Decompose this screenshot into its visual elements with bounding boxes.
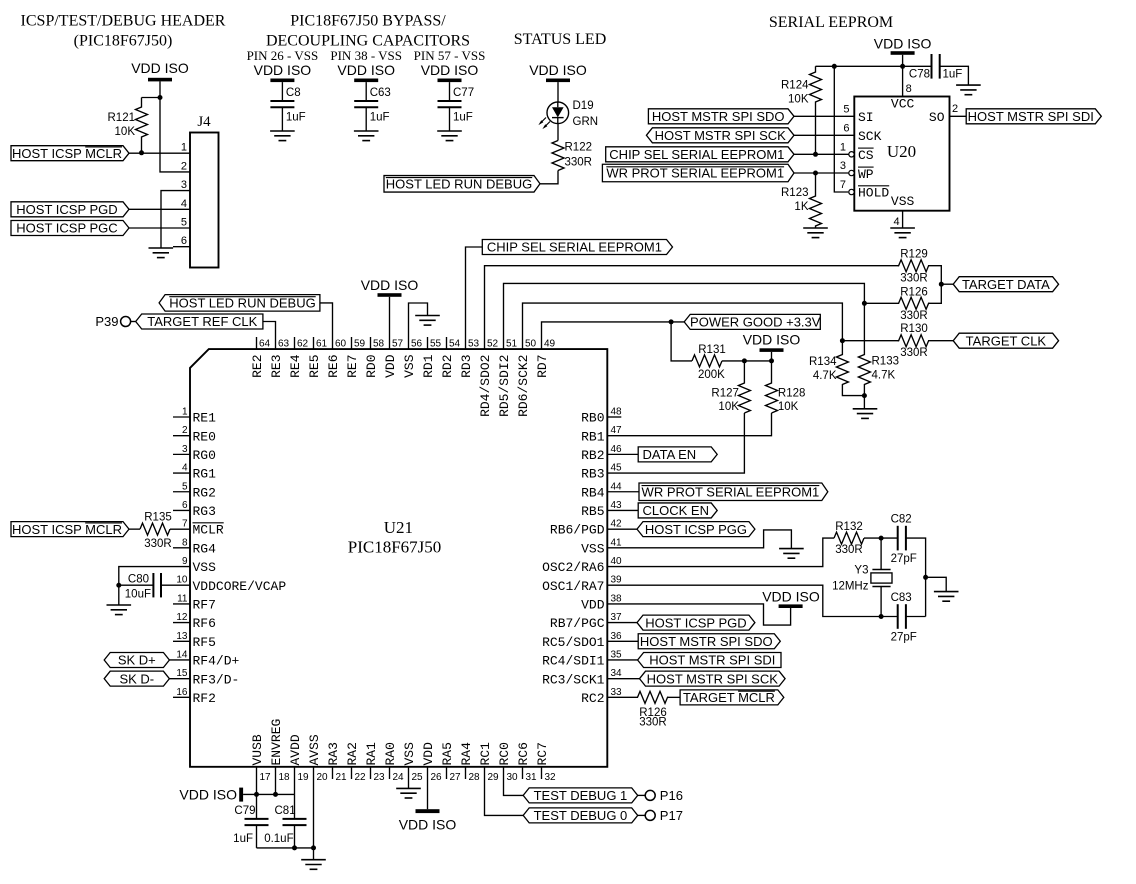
pin 1 CS label [840,142,874,164]
terminal P16 [645,788,683,803]
svg-text:D19: D19 [573,100,594,112]
power VDD ISO (C77) [421,62,479,82]
pin stub 11 [173,603,190,605]
pin 6 RG3 label [182,500,216,519]
pin 21 RA3 label [326,742,347,783]
svg-text:WP: WP [858,167,874,182]
junction TARGET CLK/R134 [840,338,845,343]
svg-text:Y3: Y3 [854,565,868,577]
junction pin 17 [254,792,259,797]
svg-text:44: 44 [611,481,623,492]
svg-text:RF6: RF6 [193,616,216,631]
pin 49 RD7 label [535,339,555,378]
pin 9 VSS label [182,556,216,575]
flag HOST LED RUN DEBUG (status LED) [384,176,540,193]
junction VDD rail [900,64,905,69]
svg-text:4: 4 [181,198,187,210]
wire C81 leads [294,794,296,819]
svg-text:HOST MSTR SPI SDO: HOST MSTR SPI SDO [640,634,773,649]
pin number J4-3 [181,179,187,191]
pin 4 VSS label [891,194,915,228]
resistor R130 [899,323,929,359]
junction R124/CS [813,152,818,157]
svg-text:VDD ISO: VDD ISO [529,62,587,78]
wire C79 leads [256,794,258,819]
wire VDD rail [243,793,294,795]
pin 19 AVDD label [288,734,309,783]
svg-text:SI: SI [858,110,874,125]
wire VDD to C8 [281,82,283,101]
svg-text:TARGET REF CLK: TARGET REF CLK [147,314,257,329]
svg-text:RB6/PGD: RB6/PGD [550,523,605,538]
wire rail to C78 [903,65,932,67]
resistor R132 [834,521,864,556]
junction R121/MCLR wire [139,150,144,155]
svg-text:58: 58 [373,339,385,350]
junction POWER GOOD/R131 [669,319,674,324]
flag HOST ICSP PGG [637,522,755,537]
wire R135 to pin 7 [170,528,190,530]
svg-text:OSC1/RA7: OSC1/RA7 [542,579,604,594]
pin stub 3 [173,453,190,455]
svg-text:TEST DEBUG 1: TEST DEBUG 1 [534,788,628,803]
wire VDD to C63 [365,82,367,101]
svg-text:10K: 10K [778,401,799,413]
wire pin 17 riser [256,767,258,795]
svg-text:4: 4 [893,216,899,228]
wire SCK flag to SCK [794,134,854,136]
pin tick 21 [332,767,334,779]
svg-text:1uF: 1uF [233,833,253,845]
wire SDO to SI [794,115,854,117]
svg-text:RD6/SCK2: RD6/SCK2 [516,355,531,417]
svg-text:12: 12 [176,612,188,623]
svg-text:R130: R130 [900,323,928,335]
pin 41 VSS label [581,537,622,556]
svg-text:1K: 1K [794,201,808,213]
flag TARGET MCLR [680,690,784,705]
svg-text:RF4/D+: RF4/D+ [193,654,240,669]
svg-text:2: 2 [952,103,958,115]
pin 7 HOLD label [840,179,890,201]
resistor R129 [899,249,929,285]
junction R123/WP [813,171,818,176]
svg-text:40: 40 [611,556,623,567]
svg-text:45: 45 [611,463,623,474]
wire node to C82 [881,537,898,539]
svg-text:0.1uF: 0.1uF [264,833,293,845]
connector J4 [190,114,219,268]
svg-text:RC1: RC1 [478,742,493,766]
wire pin 41 VSS to ground [607,530,791,549]
svg-text:VDD ISO: VDD ISO [874,36,932,52]
svg-text:RF7: RF7 [193,598,216,613]
svg-text:1uF: 1uF [453,112,473,124]
svg-text:TEST DEBUG 0: TEST DEBUG 0 [534,808,628,823]
pin 42 RB6/PGD label [550,519,622,538]
flag HOST LED RUN DEBUG (U21) [159,295,320,312]
svg-text:27pF: 27pF [891,632,917,644]
svg-text:R127: R127 [711,388,739,400]
pin 23 RA1 label [364,742,385,783]
svg-text:59: 59 [354,339,366,350]
wire pin 25 VSS [408,767,410,789]
wire C77 to ground [449,107,451,131]
pin 28 RA4 label [459,742,480,783]
svg-text:20: 20 [317,772,329,783]
svg-text:47: 47 [611,425,623,436]
svg-text:U20: U20 [887,142,916,161]
wire pin 46 RB2 [607,453,639,455]
pin 52 RD4/SDO2 label [478,339,498,417]
pin 61 RE5 label [307,339,327,378]
resistor R121 [108,98,148,153]
svg-text:J4: J4 [197,114,211,130]
svg-text:CS: CS [858,148,874,163]
wire LED to R122 [557,124,559,141]
svg-text:VDD: VDD [383,354,398,378]
wire SK D+ to pin 14 [169,659,190,661]
wire pin 43 RB5 [607,509,639,511]
pin stub 6 [173,509,190,511]
pin tick 23 [370,767,372,779]
flag HOST ICSP MCLR (U21) [11,522,129,537]
svg-text:36: 36 [611,631,623,642]
svg-text:R134: R134 [809,356,837,368]
flag DATA EN [638,447,717,462]
svg-text:VSS: VSS [891,194,915,209]
svg-text:P17: P17 [660,808,683,823]
pin stub 8 [173,547,190,549]
wire VDD to R121 [142,97,161,99]
pin 4 RG1 label [182,463,216,482]
svg-text:VDD ISO: VDD ISO [179,787,237,803]
title ICSP/TEST/DEBUG HEADER [21,13,226,50]
wire C81 bottom [294,825,296,848]
wire pin 18 riser [275,767,277,795]
pin 47 RB1 label [581,425,622,444]
power VDD ISO (J4) [131,60,189,81]
svg-text:C8: C8 [286,87,301,99]
svg-text:CLOCK EN: CLOCK EN [643,503,709,518]
flag HOST MSTR SPI SDI (EEPROM) [966,109,1101,124]
wire C79 bottom [256,825,258,848]
wire MCLR flag to J4 pin 1 [129,152,190,154]
wire pin 34 [607,678,645,680]
power VDD ISO (C63) [337,62,395,82]
ground (crystal) [934,592,959,602]
pin 15 RF3/D- label [176,668,239,687]
pin 54 RD2 label [440,339,460,378]
wire R131 to R127 node [722,360,744,362]
wire VDD bar to node [771,352,773,361]
capacitor C81 [264,805,306,845]
flag HOST MSTR SPI SDO (EEPROM) [648,109,794,124]
pin 18 ENVREG label [269,719,290,783]
wire PGC to J4 pin 5 [129,227,190,229]
IC U20 [854,97,949,211]
pin 13 RF5 label [176,631,216,650]
svg-text:62: 62 [297,339,309,350]
ground (C80) [107,605,132,615]
svg-text:12MHz: 12MHz [832,580,869,592]
wire pin 45 RB3 to R127 [607,413,744,473]
wire R126 to node [928,284,941,303]
pin 56 VSS label [402,339,422,378]
wire SK D- to pin 15 [169,678,190,680]
svg-text:RE4: RE4 [288,354,303,378]
capacitor C8 [270,87,305,124]
svg-text:55: 55 [430,339,442,350]
wire LED RUN DEBUG to pin 60 [320,303,333,349]
svg-text:6: 6 [843,123,849,135]
pin tick 31 [522,767,524,779]
capacitor C77 [438,87,475,124]
pin 30 RC0 label [497,742,518,783]
wire R129 to TARGET DATA node [928,266,941,285]
crystal Y3 [832,538,892,616]
svg-text:3: 3 [840,160,846,172]
junction rail/HOLD [832,64,837,69]
svg-text:R132: R132 [835,521,863,533]
wire pin 56 VSS to ground [409,303,428,349]
flag WR PROT SERIAL EEPROM1 (EEPROM) [602,164,794,182]
svg-text:25: 25 [412,772,424,783]
svg-text:RC2: RC2 [581,691,604,706]
flag HOST ICSP PGC [11,221,129,236]
ground (C63) [354,131,379,141]
svg-text:WR PROT SERIAL EEPROM1: WR PROT SERIAL EEPROM1 [606,166,784,181]
svg-text:HOST MSTR SPI SDI: HOST MSTR SPI SDI [649,653,775,668]
svg-text:27pF: 27pF [891,553,917,565]
svg-text:17: 17 [260,772,272,783]
svg-text:VSS: VSS [402,742,417,766]
svg-text:RE2: RE2 [250,355,265,378]
wire pin 35 [607,659,643,661]
svg-text:5: 5 [182,481,188,492]
pin 38 VDD label [581,593,622,612]
pin stub 16 [173,696,190,698]
wire pin 44 RB4 [607,491,639,493]
svg-text:RE7: RE7 [345,355,360,378]
svg-text:HOST ICSP PGG: HOST ICSP PGG [645,522,747,537]
wire pull-up rail [816,65,903,67]
svg-text:RB7/PGC: RB7/PGC [550,616,605,631]
pin tick 27 [446,767,448,779]
power VDD ISO (EEPROM) [874,36,932,55]
pin 43 RB5 label [581,500,622,519]
flag HOST MSTR SPI SDO (U21) [638,634,780,649]
wire pin 20 AVSS riser [313,767,315,860]
pin 46 RB2 label [581,444,622,463]
pin 8 VCC label [891,83,915,112]
wire PGD to J4 pin 4 [129,208,190,210]
wire pin 40 OSC2 [607,538,834,566]
wire C63 to ground [365,107,367,131]
pin tick 28 [465,767,467,779]
flag WR PROT SERIAL EEPROM1 (U21) [639,483,828,501]
svg-text:HOST LED RUN DEBUG: HOST LED RUN DEBUG [169,296,315,311]
svg-text:RB1: RB1 [581,429,605,444]
svg-text:SO: SO [929,110,945,125]
pin 35 RC4/SDI1 label [542,649,622,668]
wire pin 49 riser [542,322,686,349]
svg-text:53: 53 [468,339,480,350]
pin 10 VDDCORE/VCAP label [176,575,286,594]
flag TARGET DATA [953,277,1058,292]
pin 60 RE6 label [326,339,346,378]
svg-text:VSS: VSS [193,560,217,575]
svg-text:6: 6 [182,500,188,511]
resistor R133 [858,303,899,395]
svg-text:VDD ISO: VDD ISO [131,60,189,76]
flag HOST ICSP PGD (U21) [637,615,755,630]
pin number J4-6 [181,235,187,247]
svg-text:R135: R135 [144,512,172,524]
svg-text:RC0: RC0 [497,742,512,765]
wire pin 36 [607,640,638,642]
wire R126 to TARGET MCLR [667,696,680,698]
wire pin 57 VDD riser [389,297,391,349]
wire to R128 node [744,360,771,362]
wire CHIP SEL to CS [794,153,849,155]
svg-text:RD4/SDO2: RD4/SDO2 [478,354,493,416]
svg-text:1: 1 [181,142,187,154]
pin 32 RC7 label [535,742,556,783]
svg-text:RD2: RD2 [440,355,455,378]
junction R126/R133 [862,301,867,306]
pin 57 VDD label [383,339,403,378]
title PIC18F67J50 BYPASS/DECOUPLING CAPACITORS [266,13,470,50]
wire R132 to crystal node [864,537,881,539]
pin 55 RD1 label [421,339,441,378]
svg-text:29: 29 [488,772,500,783]
resistor R128 [766,361,806,413]
wire C82 to right rail [906,538,926,616]
resistor R122 [552,141,592,171]
svg-text:R129: R129 [900,249,928,261]
wire pin 10 VDDCORE [161,584,190,586]
resistor R126 (TARGET DATA) [899,287,929,323]
svg-text:15: 15 [176,668,188,679]
svg-text:HOST MSTR SPI SCK: HOST MSTR SPI SCK [647,671,779,686]
pin 8 RG4 label [182,537,216,556]
svg-text:RD7: RD7 [535,355,550,378]
pin 29 RC1 label [478,742,499,783]
svg-text:RB5: RB5 [581,504,604,519]
svg-text:5: 5 [843,104,849,116]
svg-text:RE5: RE5 [307,355,322,378]
svg-text:330R: 330R [835,544,863,556]
svg-text:26: 26 [431,772,443,783]
resistor R123 [781,173,822,228]
svg-text:CHIP SEL SERIAL EEPROM1: CHIP SEL SERIAL EEPROM1 [487,240,662,255]
svg-text:C80: C80 [128,574,149,586]
svg-text:13: 13 [176,631,188,642]
junction R128 top [769,358,774,363]
pin stub 12 [173,622,190,624]
svg-text:4.7K: 4.7K [813,370,837,382]
wire WR PROT to WP [794,172,849,174]
svg-text:HOST ICSP MCLR: HOST ICSP MCLR [12,146,122,161]
pin stub 4 [173,472,190,474]
resistor R127 [711,361,750,413]
svg-text:7: 7 [840,179,846,191]
svg-text:61: 61 [316,339,328,350]
pin 64 RE2 label [250,339,270,378]
ground (AVSS) [301,860,326,870]
svg-text:9: 9 [182,556,188,567]
svg-text:10K: 10K [788,94,809,106]
flag TARGET REF CLK [136,314,263,329]
svg-text:46: 46 [611,444,623,455]
svg-text:RA4: RA4 [459,742,474,766]
pin 3 RG0 label [182,444,216,463]
svg-text:VDD ISO: VDD ISO [361,277,419,293]
wire pin 9 VSS [119,567,190,586]
svg-text:1: 1 [840,142,846,154]
pin 45 RB3 label [581,463,622,482]
power VDD ISO (C79/C81) [179,787,243,803]
svg-text:P39: P39 [95,314,118,329]
svg-text:VSS: VSS [402,354,417,378]
wire P39 to flag [130,321,136,323]
ground (R123) [803,228,828,238]
svg-text:31: 31 [526,772,538,783]
flag HOST ICSP MCLR [11,146,129,161]
wire VDD to U20 VCC pin 8 [902,55,904,97]
wire pin 51 riser [504,283,865,349]
label PIN 57 - VSS [414,48,486,63]
pin 36 RC5/SDO1 label [542,631,622,650]
svg-text:RF5: RF5 [193,635,216,650]
svg-text:64: 64 [259,339,271,350]
terminal P39 [95,314,130,329]
wire pin 52 to R129 [485,266,900,349]
svg-text:RE0: RE0 [193,429,216,444]
svg-text:54: 54 [449,339,461,350]
svg-text:RG0: RG0 [193,448,216,463]
svg-text:35: 35 [611,649,623,660]
pin 33 RC2 label [581,687,622,706]
svg-text:RA0: RA0 [383,742,398,765]
wire J4 pin 3 to ground [161,191,190,248]
wire node to TARGET DATA flag [941,283,953,285]
svg-text:C83: C83 [891,592,912,604]
svg-text:50: 50 [525,339,537,350]
svg-text:RG3: RG3 [193,504,216,519]
svg-text:34: 34 [611,668,623,679]
pin tick 64 [256,337,258,349]
wire pin 53 riser [466,247,483,349]
label PIN 38 - VSS [330,48,402,63]
wire pin 38 VDD [607,604,790,625]
junction C80/VSS [116,583,121,588]
svg-text:R128: R128 [778,388,806,400]
wire C78 to ground [940,66,969,85]
svg-text:RE1: RE1 [193,411,217,426]
svg-text:10K: 10K [718,401,739,413]
ground (R133/R134) [853,409,878,419]
svg-text:HOST ICSP PGD: HOST ICSP PGD [16,202,117,217]
pin 37 RB7/PGC label [550,612,622,631]
pin 12 RF6 label [176,612,216,631]
svg-text:1: 1 [182,407,188,418]
pin 25 VSS label [402,742,423,783]
pin tick 22 [351,767,353,779]
flag TARGET CLK [953,333,1058,348]
flag CHIP SEL SERIAL EEPROM1 (EEPROM) [606,147,794,162]
